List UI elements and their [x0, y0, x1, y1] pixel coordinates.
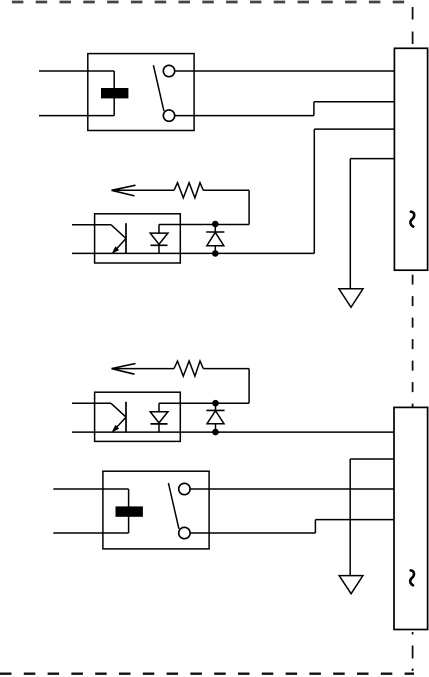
- optocoupler U1 LED cathode bar: [151, 244, 168, 246]
- enclosure dashed border right (middle segment): [412, 270, 414, 407]
- optocoupler U1 collector lead wire: [72, 224, 111, 226]
- zener D2 anode vertical: [215, 424, 217, 432]
- optocoupler U2 phototransistor base bar: [125, 402, 127, 433]
- wire resistor R2 to corner: [203, 368, 249, 370]
- relay K1 contact arm: [153, 65, 164, 111]
- resistor R1: [174, 183, 203, 198]
- optocoupler U2 box: [95, 392, 181, 441]
- zener D2 triangle: [207, 411, 224, 424]
- relay K2 contact terminal top: [179, 483, 190, 494]
- connector X2: [394, 407, 428, 629]
- wire to connector X1 pin3: [314, 128, 394, 130]
- relay K1 coil body: [101, 88, 128, 98]
- wire connector X1 pin4 to ground: [350, 158, 394, 160]
- node junction dot bottom 2: [212, 429, 219, 436]
- ground symbol GND1: [339, 289, 363, 308]
- enclosure dashed border right (upper segment): [412, 7, 414, 48]
- optocoupler U2 LED anode vertical: [158, 403, 160, 412]
- wire to connector X2 pin4: [315, 519, 394, 521]
- ground symbol GND2: [339, 576, 363, 594]
- zener D1 anode vertical: [214, 246, 216, 254]
- optocoupler U1 LED anode vertical: [158, 225, 160, 234]
- wire step vertical to pin4: [314, 520, 316, 533]
- zener D2 cathode bar: [206, 409, 224, 411]
- node junction dot top: [212, 221, 219, 228]
- wire node to zener D1: [214, 224, 216, 232]
- optocoupler U1 LED cathode vertical: [158, 245, 160, 253]
- optocoupler U2 collector lead wire: [72, 402, 111, 404]
- relay K2 contact arm: [168, 483, 179, 529]
- optocoupler U2 LED triangle: [150, 412, 168, 423]
- relay K2 box: [103, 471, 209, 549]
- relay K2 coil vertical wire: [128, 489, 130, 533]
- zener D1 triangle: [207, 232, 224, 245]
- wire LED anode line: [159, 224, 249, 226]
- wire LED anode line 2: [159, 402, 249, 404]
- resistor R2: [174, 361, 203, 376]
- optocoupler U1 box: [95, 214, 181, 263]
- optocoupler U1 LED triangle: [150, 233, 168, 244]
- optocoupler U2 phototransistor emitter with arrow: [115, 417, 127, 430]
- wire resistor R1 to corner: [203, 189, 249, 191]
- optocoupler U1 phototransistor base bar: [125, 223, 127, 254]
- wire corner down to LED node: [248, 190, 250, 224]
- wire ground vertical: [349, 159, 351, 289]
- signal arrow A1: [112, 185, 136, 196]
- wire relay K2 NO contact to connector X2 pin3: [190, 488, 394, 490]
- relay K1 coil top lead wire: [39, 70, 114, 72]
- relay K1 coil vertical wire: [113, 71, 115, 116]
- enclosure dashed border right (lower segment): [412, 632, 414, 674]
- zener D1 cathode bar: [206, 231, 224, 233]
- wire relay K2 common contact horizontal: [190, 532, 315, 534]
- wire arrow shaft 2: [112, 368, 175, 370]
- connector X2 tilde mark: [410, 570, 414, 585]
- relay K2 coil body: [116, 506, 143, 516]
- relay K1 box: [88, 54, 194, 131]
- enclosure dashed border top: [0, 1, 408, 4]
- optocoupler U1 phototransistor emitter with arrow: [115, 239, 127, 252]
- node junction dot bottom: [212, 250, 219, 257]
- optocoupler U2 phototransistor collector diagonal: [111, 403, 126, 417]
- wire node to zener D2: [215, 403, 217, 410]
- node junction dot top 2: [212, 400, 219, 407]
- relay K2 contact terminal bottom: [179, 527, 190, 538]
- relay K1 contact terminal bottom: [163, 110, 174, 121]
- optocoupler U1 phototransistor collector diagonal: [111, 225, 126, 239]
- wire relay K1 common contact horizontal: [175, 115, 314, 117]
- enclosure dashed border bottom: [0, 673, 414, 675]
- wire corner down to LED node 2: [248, 369, 250, 404]
- signal arrow A2: [112, 364, 136, 375]
- wire ground vertical 2: [349, 459, 351, 576]
- wire opto bottom rail: [72, 252, 314, 254]
- connector X1: [394, 48, 427, 270]
- wire vertical up to pin3: [313, 129, 315, 253]
- optocoupler U2 LED cathode vertical: [158, 424, 160, 432]
- relay K2 coil top lead wire: [53, 488, 128, 490]
- wire step vertical to pin2: [313, 102, 315, 116]
- relay K1 contact terminal top: [163, 65, 174, 76]
- optocoupler U2 LED cathode bar: [151, 423, 168, 425]
- wire relay K1 NO contact to connector X1 pin1: [175, 70, 395, 72]
- relay K2 coil bottom lead wire: [53, 532, 128, 534]
- wire arrow shaft: [112, 189, 175, 191]
- wire opto2 bottom rail to connector X2 pin1: [72, 431, 394, 433]
- wire connector X2 pin2 to ground: [350, 458, 394, 460]
- connector X1 tilde mark: [410, 212, 414, 227]
- relay K1 coil bottom lead wire: [39, 115, 114, 117]
- wire to connector X1 pin2: [314, 101, 395, 103]
